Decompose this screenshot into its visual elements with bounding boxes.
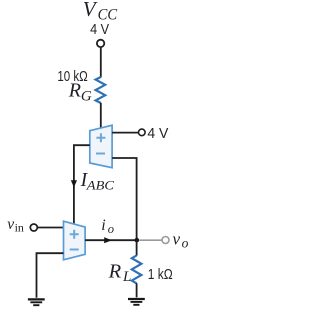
svg-text:o: o [108,222,114,236]
svg-text:v: v [173,230,181,249]
wire VCC terminal to RG top [100,48,102,78]
ref label RL [108,261,132,286]
ref label RG [68,80,92,105]
junction output node [135,238,140,243]
svg-text:R: R [68,80,81,102]
resistor RG [96,77,106,103]
node VCC terminal [97,40,104,47]
ground (right) [128,299,145,305]
svg-text:v: v [7,216,14,233]
current arrow IABC [71,180,77,187]
node vo terminal [162,237,169,244]
wire U2 inverting input to ground [37,253,64,298]
wire vin terminal to U2 noninverting input [38,227,64,229]
svg-text:V: V [83,0,98,21]
svg-text:4 V: 4 V [90,21,109,38]
node VCC label [83,0,118,23]
wire U2 output to output node [85,239,137,241]
wire U1 inverting input feedback down to output node [112,158,137,240]
svg-text:i: i [101,217,105,234]
wire RG bottom to op-amp U1 bias [100,103,102,129]
resistor RL [132,255,142,283]
node 4V terminal [139,129,146,136]
svg-text:ABC: ABC [86,178,115,193]
wire U1 output to U2 bias (IABC path) [74,145,90,224]
wire output node to RL [136,240,138,256]
svg-text:L: L [122,269,131,285]
svg-text:R: R [108,261,122,283]
op-amp U1 (top OTA) [90,125,112,168]
svg-text:G: G [81,89,92,105]
current arrow io [104,237,112,243]
wire RL bottom to ground [136,283,138,297]
current label IABC [80,170,115,193]
op-amp U2 (bottom OTA) [64,221,86,260]
current label io [101,217,114,236]
svg-text:o: o [182,236,189,251]
wire output node to vo terminal (gray) [139,239,161,241]
ground (left) [28,299,45,305]
node vo label [173,230,189,251]
wire U1 noninverting input to 4V terminal [112,132,138,134]
svg-text:4 V: 4 V [147,125,168,142]
svg-text:in: in [15,221,24,235]
node vin label [7,216,24,235]
node vin terminal [30,224,37,231]
svg-text:1 kΩ: 1 kΩ [148,266,173,283]
